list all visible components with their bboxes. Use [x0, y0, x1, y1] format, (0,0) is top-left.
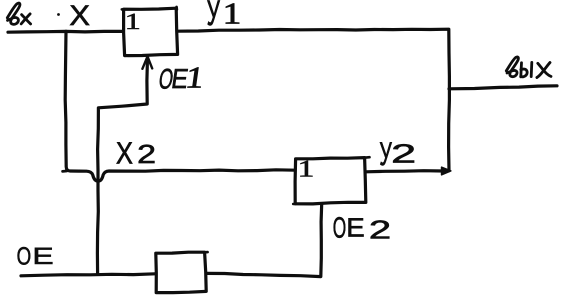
svg-text:О: О	[333, 211, 346, 244]
svg-text:Е: Е	[32, 243, 53, 269]
svg-text:X: X	[69, 0, 90, 31]
svg-text:2: 2	[391, 139, 416, 168]
svg-text:2: 2	[369, 215, 391, 244]
svg-text:Х: Х	[116, 136, 133, 170]
svg-text:1: 1	[125, 9, 141, 35]
svg-text:1: 1	[223, 0, 242, 30]
svg-text:О: О	[17, 242, 32, 270]
svg-text:2: 2	[137, 139, 156, 168]
svg-text:1: 1	[298, 156, 315, 182]
svg-text:У: У	[207, 0, 220, 33]
svg-text:У: У	[379, 135, 392, 172]
svg-text:Е: Е	[346, 213, 364, 243]
